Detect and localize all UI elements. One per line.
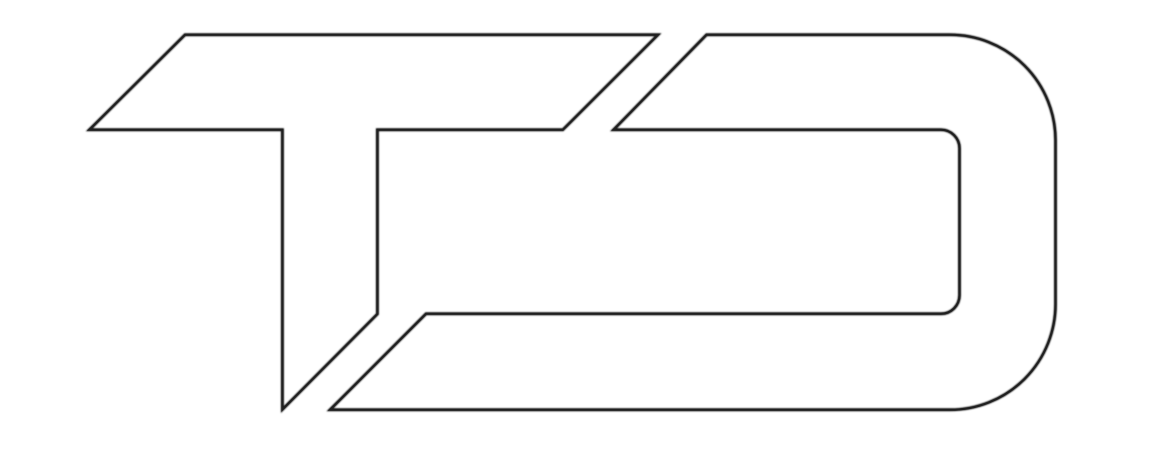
letter T outline: [89, 35, 658, 410]
letter T outline (halo): [89, 35, 658, 410]
letter D outline (halo): [330, 35, 1056, 410]
letter D outline: [330, 35, 1056, 410]
